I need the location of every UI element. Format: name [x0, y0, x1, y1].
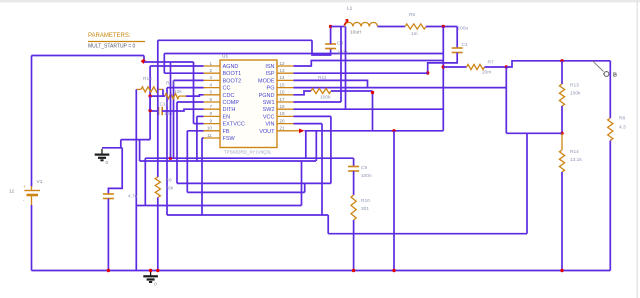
svg-text:10k: 10k — [174, 89, 182, 95]
wire VOUT column — [315, 131, 317, 161]
svg-text:EXTVCC: EXTVCC — [223, 122, 245, 128]
wire R8 top — [609, 61, 611, 118]
wire FB down column — [526, 133, 528, 233]
svg-text:PARAMETERS:: PARAMETERS: — [88, 33, 131, 39]
wire to pin10 FB — [187, 130, 203, 132]
svg-text:13.1k: 13.1k — [570, 157, 582, 163]
wire C5 bottom — [107, 199, 109, 271]
junction bus R14 — [560, 269, 563, 272]
wire ground bus — [32, 270, 611, 272]
svg-text:10: 10 — [207, 126, 213, 131]
svg-text:R6: R6 — [409, 12, 415, 18]
wire SW1 row — [294, 101, 342, 103]
resistor R9 — [155, 177, 160, 198]
wire vin top — [32, 55, 145, 57]
ground G1 sym — [95, 149, 110, 166]
wire R13 top — [561, 61, 563, 84]
resistor R8 — [608, 118, 613, 141]
value 4.7u — [128, 194, 138, 200]
svg-text:1: 1 — [209, 61, 212, 66]
wire bus FB low — [187, 191, 304, 193]
wire R9 top rail — [158, 39, 312, 41]
wire to pin11 FSW — [202, 137, 204, 139]
wire gnd jog h2 — [102, 147, 122, 149]
svg-text:100k: 100k — [320, 95, 331, 101]
svg-text:100n: 100n — [361, 173, 372, 179]
wire gnd jog v1 — [120, 140, 122, 148]
svg-text:L1: L1 — [347, 6, 353, 12]
IC U1 pin names — [223, 64, 276, 142]
svg-text:2: 2 — [209, 68, 212, 73]
svg-text:100u: 100u — [458, 26, 469, 32]
svg-text:6: 6 — [209, 97, 212, 102]
inductor L1 — [345, 22, 378, 26]
resistor R13 right — [559, 84, 564, 106]
svg-text:R10: R10 — [361, 198, 370, 204]
svg-text:0: 0 — [106, 160, 109, 166]
wire bus2 — [140, 160, 316, 162]
wire R9 lower — [157, 198, 159, 271]
svg-text:COMP: COMP — [223, 100, 240, 106]
source V1 — [23, 184, 40, 205]
svg-text:R13: R13 — [570, 83, 579, 89]
capacitor C8 — [325, 44, 336, 49]
value 1m — [411, 31, 418, 37]
svg-text:R14: R14 — [570, 149, 579, 155]
wire R6 to C4 — [426, 26, 457, 28]
wire left long column — [135, 89, 137, 270]
wire R11 column — [372, 91, 374, 131]
svg-text:MULT_STARTUP = 0: MULT_STARTUP = 0 — [88, 44, 136, 50]
label R8 — [619, 116, 625, 122]
capacitor C4 — [452, 48, 463, 53]
svg-text:19: 19 — [280, 111, 286, 116]
svg-text:+: + — [23, 184, 26, 189]
wire vin corner — [143, 56, 145, 63]
svg-text:DITH: DITH — [223, 107, 236, 113]
capacitor C9 — [348, 167, 359, 172]
op-amp U1 box — [220, 60, 277, 148]
junction R7 out — [505, 65, 508, 68]
wire SW2 row — [294, 108, 444, 110]
wire pin3 column — [173, 80, 175, 158]
svg-text:9: 9 — [209, 118, 212, 123]
junction R11 corner — [371, 91, 374, 94]
resistor R10 — [351, 195, 356, 220]
svg-text:V1: V1 — [37, 179, 43, 185]
junction bus gnd — [149, 269, 152, 272]
svg-text:BOOT1: BOOT1 — [223, 71, 242, 77]
wire VCC row — [294, 115, 331, 117]
wire R12 left — [150, 95, 165, 97]
svg-text:3: 3 — [209, 75, 212, 80]
junction R6 out — [442, 25, 445, 28]
label C9 — [361, 165, 367, 171]
wire gnd jog down — [139, 140, 141, 161]
wire R7 left — [443, 66, 466, 68]
junction L1 left — [329, 25, 332, 28]
label C4 — [462, 42, 468, 48]
value 100n — [361, 173, 372, 179]
label U1 — [222, 54, 228, 60]
wire pin6 column — [176, 102, 178, 183]
label R13 value — [570, 83, 579, 89]
label V1 — [37, 179, 43, 185]
svg-text:CDC: CDC — [223, 93, 235, 99]
junction R7 in — [442, 65, 445, 68]
svg-text:18: 18 — [280, 104, 286, 109]
net marker diamond — [141, 59, 147, 64]
value 10k — [174, 89, 182, 95]
svg-text:13: 13 — [280, 68, 286, 73]
wire AGND column — [149, 66, 151, 140]
svg-text:R11: R11 — [318, 75, 327, 81]
wire to pin9 EXTVCC2 — [194, 123, 204, 125]
wire C13 to pin7 — [162, 109, 203, 111]
wire bus AGND low — [145, 157, 353, 159]
wire bus5 right col — [327, 215, 329, 234]
wire R11 right — [331, 90, 373, 92]
wire C4 top — [456, 27, 458, 49]
svg-text:FB: FB — [223, 129, 230, 135]
svg-text:U1: U1 — [222, 54, 228, 60]
svg-text:20: 20 — [280, 118, 286, 123]
wire L1 left — [331, 26, 345, 28]
junction FB div — [560, 132, 563, 135]
label R7 — [488, 60, 494, 66]
resistor R13 — [136, 87, 163, 92]
svg-text:PGND: PGND — [259, 93, 275, 99]
wire MODE row — [294, 80, 368, 87]
wire VIN row — [294, 123, 323, 125]
value 20m — [482, 70, 491, 76]
value 100n — [337, 50, 348, 56]
label R6 — [409, 12, 415, 18]
wire to pin2 BOOT1 — [164, 72, 203, 74]
value 10uH — [350, 30, 362, 36]
IC U1 pin numbers — [207, 61, 285, 138]
svg-text:B: B — [613, 73, 617, 79]
wire ISP row — [294, 72, 428, 74]
wire C8 bottom — [312, 40, 331, 55]
junction VOUT x394 — [392, 129, 395, 132]
wire R13 bottom — [561, 106, 563, 133]
wire ISN column — [442, 27, 444, 131]
wire VOUT row — [305, 130, 444, 132]
svg-text:15: 15 — [280, 82, 286, 87]
wire to pin8 EN — [197, 115, 204, 117]
svg-text:BOOT2: BOOT2 — [223, 78, 242, 84]
resistor R7 — [467, 64, 485, 69]
wire R8 bottom — [609, 141, 611, 271]
wire ISN row — [294, 61, 444, 67]
wire C4 bottom — [428, 53, 458, 74]
pin stub VOUT ext — [294, 130, 300, 132]
svg-text:21: 21 — [280, 126, 286, 131]
junction ISP — [426, 71, 429, 74]
svg-text:ISP: ISP — [266, 71, 275, 77]
svg-text:4.7u: 4.7u — [128, 194, 138, 200]
wire gnd jog h1 — [121, 139, 150, 141]
wire SW2 column — [345, 27, 347, 110]
wire C8 top — [330, 27, 332, 45]
svg-text:CC: CC — [223, 86, 231, 92]
junction bus1 — [169, 157, 172, 160]
capacitor C13 — [159, 107, 163, 115]
wire VCC column — [330, 116, 332, 183]
svg-text:TPS63DRD_XY1V8Q3L: TPS63DRD_XY1V8Q3L — [224, 150, 272, 155]
wire vin to EN ladder — [144, 61, 194, 63]
wire bus4 — [136, 205, 301, 207]
wire pin4 column — [166, 88, 168, 215]
wire R7 right — [485, 66, 507, 68]
wire FSW column — [201, 138, 203, 215]
wire PG row — [294, 87, 507, 89]
resistor R12 — [165, 94, 186, 99]
svg-text:16: 16 — [280, 90, 286, 95]
svg-text:SW1: SW1 — [263, 100, 275, 106]
svg-text:12: 12 — [280, 61, 286, 66]
label C8 — [337, 41, 343, 47]
wire bus5 — [167, 214, 328, 216]
value 4.3 — [619, 125, 626, 131]
svg-text:PG: PG — [267, 86, 275, 92]
svg-text:C4: C4 — [462, 42, 468, 48]
junction C13 left — [148, 109, 151, 112]
wire C9 to R10 — [353, 171, 355, 195]
current arrow L1 — [344, 20, 348, 26]
junction R12 left — [148, 94, 151, 97]
label R11 — [318, 75, 327, 81]
wire u-turn link — [304, 183, 306, 192]
wire EN column — [193, 62, 195, 124]
svg-text:5: 5 — [209, 90, 212, 95]
junction bus x394 — [392, 269, 395, 272]
wire VIN column — [321, 124, 323, 215]
svg-text:AGND: AGND — [223, 64, 239, 70]
wire FB link — [506, 132, 562, 134]
wire to pin4 CC — [167, 87, 204, 89]
wire lower fb bus — [328, 233, 527, 235]
svg-text:R8: R8 — [619, 116, 625, 122]
wire R13 to R12 — [163, 89, 165, 96]
resistor R14 — [559, 133, 564, 172]
junction bus C9 — [352, 269, 355, 272]
value 100k — [320, 95, 331, 101]
wire FB column — [186, 131, 188, 193]
value 301 — [361, 206, 369, 212]
value 76k — [166, 186, 174, 192]
svg-text:SW2: SW2 — [263, 107, 275, 113]
wire bus4 left col — [144, 158, 146, 205]
wire VOUT branch2 — [305, 131, 307, 158]
svg-text:17: 17 — [280, 97, 286, 102]
value 10n — [164, 111, 172, 117]
wire V1 top — [31, 56, 33, 187]
wire x394 column — [393, 131, 395, 271]
wire C5 top — [108, 148, 122, 194]
label R14 — [570, 149, 579, 155]
wire x170 column — [170, 62, 172, 158]
svg-text:4.3: 4.3 — [619, 125, 626, 131]
parameters text — [88, 33, 145, 50]
svg-text:100n: 100n — [337, 50, 348, 56]
value 100u — [458, 26, 469, 32]
svg-text:1m: 1m — [411, 31, 418, 37]
label C13 — [160, 102, 169, 108]
ground G2 — [143, 271, 158, 288]
wire AGND col lower — [149, 96, 151, 110]
wire R9 upper — [157, 40, 159, 177]
capacitor C5 — [103, 194, 114, 199]
svg-text:76k: 76k — [166, 186, 174, 192]
value 12 — [9, 189, 15, 195]
svg-text:C13: C13 — [160, 102, 169, 108]
label R10 — [361, 198, 370, 204]
wire L1 to R6 — [378, 26, 406, 28]
junction bus C5 — [107, 269, 110, 272]
wire C13 left — [150, 110, 158, 112]
svg-text:ISN: ISN — [265, 64, 274, 70]
wire bus VCC — [177, 182, 331, 184]
svg-text:14: 14 — [280, 75, 286, 80]
label L1 — [347, 6, 353, 12]
svg-text:8: 8 — [209, 111, 212, 116]
net label B — [593, 61, 618, 79]
value 13.1k — [570, 157, 582, 163]
svg-text:VCC: VCC — [263, 114, 275, 120]
svg-text:0: 0 — [154, 282, 157, 288]
svg-text:301: 301 — [361, 206, 369, 212]
svg-text:VIN: VIN — [265, 122, 274, 128]
svg-text:20m: 20m — [482, 70, 491, 76]
junction R13 top — [560, 59, 563, 62]
svg-text:10uH: 10uH — [350, 30, 362, 36]
svg-text:11: 11 — [207, 133, 212, 138]
wire out jog — [506, 61, 610, 67]
wire to pin6 COMP — [177, 101, 204, 103]
svg-text:FSW: FSW — [223, 136, 236, 142]
wire V1 bottom — [31, 205, 33, 271]
wire pin9 column — [196, 116, 198, 161]
label U1 part — [224, 150, 272, 155]
svg-text:R13: R13 — [143, 76, 152, 82]
svg-text:C9: C9 — [361, 165, 367, 171]
wire bus4 link — [301, 161, 303, 206]
value 100k — [570, 91, 581, 97]
wire pin1 AGND — [150, 65, 203, 67]
svg-text:7: 7 — [209, 104, 212, 109]
wire rail to pin2 — [163, 54, 165, 74]
resistor R11 — [311, 88, 331, 93]
svg-text:12: 12 — [9, 189, 15, 195]
svg-text:MODE: MODE — [258, 78, 275, 84]
wire R10 bottom — [353, 220, 355, 271]
IC U1 pin stubs — [204, 66, 294, 138]
current arrow VOUT — [299, 129, 305, 134]
wire PG column — [505, 67, 507, 133]
wire R11 left — [294, 91, 312, 95]
svg-text:4: 4 — [209, 82, 212, 87]
wire R12 to pin5 — [186, 95, 204, 96]
label R13 — [143, 76, 152, 82]
wire C9 top — [353, 158, 355, 166]
svg-text:R7: R7 — [488, 60, 494, 66]
svg-text:R9: R9 — [166, 178, 172, 184]
wire SW1 column — [340, 27, 342, 103]
label R9 — [166, 178, 172, 184]
svg-text:VOUT: VOUT — [259, 129, 275, 135]
wire to pin3 BOOT2 — [174, 79, 204, 81]
junction bus R9b — [156, 269, 159, 272]
wire top rail — [164, 53, 443, 55]
svg-text:EN: EN — [223, 114, 231, 120]
svg-text:100k: 100k — [570, 91, 581, 97]
resistor R6 — [405, 24, 426, 29]
wire R14 bottom — [561, 172, 563, 271]
label R12 — [166, 81, 175, 87]
